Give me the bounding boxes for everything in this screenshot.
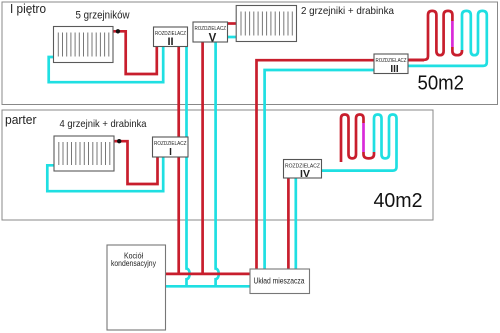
svg-text:I: I — [169, 147, 172, 158]
svg-text:Układ mieszacza: Układ mieszacza — [254, 275, 305, 285]
svg-text:III: III — [390, 64, 399, 75]
mixer unit: Uklad mieszacza — [250, 269, 310, 294]
svg-text:kondensacyjny: kondensacyjny — [111, 258, 157, 268]
manifold ROZDZIELACZ IV — [284, 160, 322, 180]
label: 4 grzejnik + drabinka — [60, 118, 147, 130]
svg-text:5 grzejników: 5 grzejników — [76, 10, 130, 22]
floor heating coil 50m2: magenta transition leg — [451, 21, 454, 47]
floor heating coil 50m2: red supply part — [408, 11, 452, 60]
wire: cyan riser rozdzielacz II down with hop over red line — [187, 47, 190, 287]
floor heating coil 50m2: red bottom u-turn — [452, 47, 462, 55]
floor heating coil 40m2: red bottom u-turn — [364, 152, 375, 158]
label: 5 grzejnikow — [76, 10, 130, 22]
manifold ROZDZIELACZ V — [193, 22, 228, 45]
svg-text:V: V — [209, 33, 217, 45]
radiator group 2 (2 grzejniki + drabinka) — [236, 6, 296, 42]
svg-text:40m2: 40m2 — [374, 190, 423, 212]
label: 50m2 area — [418, 73, 465, 95]
boiler: Kociol kondensacyjny — [107, 245, 166, 330]
wire: red boiler supply to mixer — [166, 273, 251, 276]
radiator group 1 (5 grzejnikow) — [54, 27, 114, 63]
svg-text:parter: parter — [5, 112, 37, 127]
wire: red riser rozdzielacz II down to boiler supply line — [177, 47, 180, 274]
floor heating coil 50m2: cyan return part — [408, 11, 487, 66]
floor heating coil 40m2: cyan return to rozdzielacz IV — [322, 115, 397, 171]
wire: red riser rozdzielacz IV down to mixer — [287, 178, 290, 269]
wire: cyan riser rozdzielacz V down with hop over red line — [216, 42, 219, 286]
label: 2 grzejniki + drabinka — [301, 5, 394, 17]
svg-text:4 grzejnik + drabinka: 4 grzejnik + drabinka — [60, 118, 147, 130]
floor heating coil 40m2: magenta transition leg — [362, 123, 365, 152]
wire: red supply radiator3 to rozdzielacz I — [114, 141, 158, 184]
svg-text:II: II — [167, 36, 173, 48]
label: 40m2 area — [374, 190, 423, 212]
wire: cyan stub rozdzielacz V to radiator2 — [228, 36, 238, 39]
label: I pietro — [10, 1, 46, 16]
svg-text:2 grzejniki + drabinka: 2 grzejniki + drabinka — [301, 5, 394, 17]
manifold ROZDZIELACZ III — [374, 54, 408, 75]
svg-text:I piętro: I piętro — [10, 1, 46, 16]
radiator group 3 (4 grzejnik + drabinka) — [54, 136, 114, 171]
svg-text:IV: IV — [300, 168, 310, 180]
wire: cyan run rozdzielacz III to downpipe and mixer — [265, 70, 374, 269]
floor outline: I pietro section — [2, 2, 498, 105]
label: parter — [5, 112, 37, 127]
wire: cyan boiler return to mixer — [166, 285, 251, 288]
wire: red riser rozdzielacz V down to boiler supply line — [201, 42, 204, 274]
floor outline: parter section — [2, 110, 433, 220]
node: junction dot at radiator1 outlet — [116, 29, 120, 33]
svg-text:50m2: 50m2 — [418, 73, 465, 95]
svg-text:ROZDZIELACZ: ROZDZIELACZ — [195, 26, 227, 32]
floor heating coil 40m2: red supply part — [341, 115, 364, 163]
wire: red stub rozdzielacz V to radiator2 — [228, 22, 238, 25]
wire: red supply radiator1 to rozdzielacz II — [113, 31, 157, 74]
wire: cyan return radiator1 to rozdzielacz II — [49, 46, 164, 82]
manifold ROZDZIELACZ I — [153, 137, 189, 158]
wire: red run rozdzielacz III to downpipe and mixer — [257, 60, 425, 269]
wire: cyan return radiator3 to rozdzielacz I — [47, 157, 163, 191]
node: junction dot at radiator3 outlet — [117, 139, 121, 143]
manifold ROZDZIELACZ II — [154, 27, 188, 48]
wire: cyan riser rozdzielacz IV down to mixer — [294, 178, 297, 269]
